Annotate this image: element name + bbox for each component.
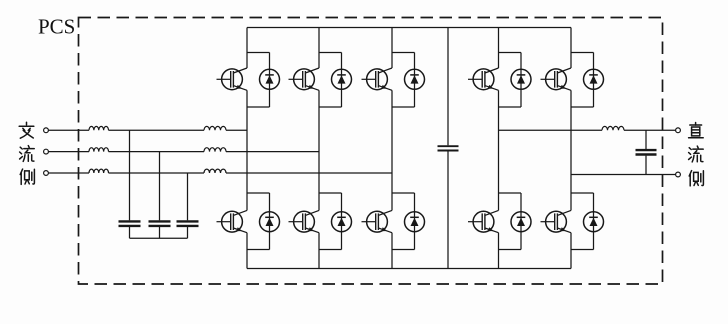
AC terminal phase B — [44, 149, 49, 154]
wire diode branch bottom Q2 — [247, 249, 270, 251]
wire leg 1 lower segment — [246, 233, 248, 269]
wire output capacitor lower — [645, 156, 647, 175]
wire diode branch bottom Q5 — [392, 106, 415, 108]
wire phase A to bridge leg — [226, 129, 247, 131]
wire DC output negative — [571, 174, 676, 176]
wire tap from phase C to filter capacitor — [187, 173, 189, 220]
diode D1 (anti-parallel) — [260, 69, 280, 89]
IGBT Q4 — [289, 210, 320, 232]
label DC side char 流 — [689, 146, 704, 162]
IGBT Q9 — [541, 68, 572, 90]
wire diode branch bottom Q3 — [319, 106, 342, 108]
capacitor C4 (DC link) — [438, 146, 459, 150]
wire phase B between inductors — [109, 151, 205, 153]
inductor L4 (converter side) phase A — [204, 126, 226, 130]
wire leg 5 upper segment — [570, 28, 572, 69]
wire phase B to bridge leg — [226, 151, 319, 153]
DC terminal negative — [676, 172, 681, 177]
wire leg 1 middle segment — [246, 90, 248, 210]
IGBT Q10 — [541, 210, 572, 232]
wire phase B from terminal to grid inductor — [48, 151, 89, 153]
wire diode branch vertical Q6 — [414, 193, 416, 250]
svg-text:PCS: PCS — [38, 15, 75, 39]
wire leg 5 lower segment — [570, 233, 572, 269]
wire diode branch vertical Q10 — [593, 193, 595, 250]
label AC side char 交 — [19, 122, 34, 138]
capacitor C3 (filter) — [177, 221, 199, 226]
capacitor C2 (filter) — [149, 221, 171, 226]
wire diode branch top Q6 — [392, 192, 415, 194]
label DC side char 直 — [689, 123, 704, 138]
capacitor C1 (filter) — [119, 221, 141, 226]
wire diode branch top Q10 — [571, 192, 594, 194]
inductor L5 (converter side) phase B — [204, 148, 226, 152]
diode D5 (anti-parallel) — [405, 69, 425, 89]
wire diode branch top Q3 — [319, 52, 342, 54]
wire diode branch top Q1 — [247, 52, 270, 54]
wire diode branch vertical Q4 — [341, 193, 343, 250]
diode D10 (anti-parallel) — [584, 212, 604, 232]
wire diode branch bottom Q10 — [571, 249, 594, 251]
wire diode branch top Q8 — [499, 192, 522, 194]
wire diode branch vertical Q2 — [269, 193, 271, 250]
wire tap from phase B to filter capacitor — [159, 152, 161, 221]
wire below capacitor C2 — [159, 227, 161, 238]
diode D6 (anti-parallel) — [405, 212, 425, 232]
wire diode branch vertical Q1 — [269, 53, 271, 108]
diode D2 (anti-parallel) — [260, 212, 280, 232]
IGBT Q3 — [289, 68, 320, 90]
IGBT Q7 — [468, 68, 499, 90]
wire diode branch vertical Q5 — [414, 53, 416, 108]
wire below capacitor C3 — [187, 227, 189, 238]
wire diode branch top Q9 — [571, 52, 594, 54]
AC terminal phase C — [44, 171, 49, 176]
label DC side char 侧 — [689, 171, 703, 186]
wire leg 3 middle segment — [391, 90, 393, 210]
wire diode branch vertical Q8 — [520, 193, 522, 250]
wire diode branch bottom Q4 — [319, 249, 342, 251]
wire DC- rail — [247, 268, 571, 270]
wire phase A between inductors — [109, 129, 205, 131]
inductor L1 (grid side) phase A — [89, 126, 109, 130]
wire phase C between inductors — [109, 172, 205, 174]
diode D7 (anti-parallel) — [511, 69, 531, 89]
diode D8 (anti-parallel) — [511, 212, 531, 232]
inductor L6 (converter side) phase C — [204, 169, 226, 173]
label AC side char 侧 — [20, 169, 34, 184]
IGBT Q8 — [468, 210, 499, 232]
IGBT Q2 — [217, 210, 248, 232]
wire leg 4 middle segment — [498, 90, 500, 210]
wire diode branch vertical Q9 — [593, 53, 595, 108]
wire filter capacitor star bus — [130, 237, 188, 239]
diode D9 (anti-parallel) — [584, 69, 604, 89]
wire DC-link lower — [447, 151, 449, 268]
PCS enclosure dashed boundary — [79, 18, 663, 285]
wire diode branch top Q5 — [392, 52, 415, 54]
wire diode branch top Q4 — [319, 192, 342, 194]
wire leg 3 lower segment — [391, 233, 393, 269]
inductor L7 (DC output) — [602, 126, 624, 130]
wire diode branch bottom Q6 — [392, 249, 415, 251]
wire diode branch top Q7 — [499, 52, 522, 54]
inductor L2 (grid side) phase B — [89, 148, 109, 152]
label PCS — [38, 15, 75, 39]
label AC side char 流 — [20, 146, 35, 162]
wire below capacitor C1 — [129, 227, 131, 238]
DC terminal positive — [676, 128, 681, 133]
wire leg 2 lower segment — [318, 233, 320, 269]
wire leg 2 middle segment — [318, 90, 320, 210]
wire leg 1 upper segment — [246, 28, 248, 69]
capacitor C5 (DC output) — [636, 150, 657, 154]
IGBT Q1 — [217, 68, 248, 90]
wire leg 5 middle segment — [570, 90, 572, 210]
IGBT Q6 — [362, 210, 393, 232]
diode D4 (anti-parallel) — [332, 212, 352, 232]
wire diode branch bottom Q8 — [499, 249, 522, 251]
wire phase A from terminal to grid inductor — [48, 129, 89, 131]
wire leg 4 upper segment — [498, 28, 500, 69]
inductor L3 (grid side) phase C — [89, 169, 109, 173]
wire leg 2 upper segment — [318, 28, 320, 69]
wire output capacitor upper — [645, 130, 647, 149]
wire DC output positive to terminal — [624, 129, 676, 131]
AC terminal phase A — [44, 128, 49, 133]
wire leg 3 upper segment — [391, 28, 393, 69]
wire diode branch top Q2 — [247, 192, 270, 194]
diode D3 (anti-parallel) — [332, 69, 352, 89]
wire phase C from terminal to grid inductor — [48, 172, 89, 174]
wire DC output positive from leg — [499, 129, 603, 131]
IGBT Q5 — [362, 68, 393, 90]
wire diode branch bottom Q9 — [571, 106, 594, 108]
wire diode branch vertical Q7 — [520, 53, 522, 108]
wire diode branch vertical Q3 — [341, 53, 343, 108]
wire DC+ rail — [247, 27, 571, 29]
wire phase C to bridge leg — [226, 172, 392, 174]
wire DC-link upper — [447, 28, 449, 146]
wire diode branch bottom Q7 — [499, 106, 522, 108]
wire tap from phase A to filter capacitor — [129, 130, 131, 220]
wire diode branch bottom Q1 — [247, 106, 270, 108]
wire leg 4 lower segment — [498, 233, 500, 269]
